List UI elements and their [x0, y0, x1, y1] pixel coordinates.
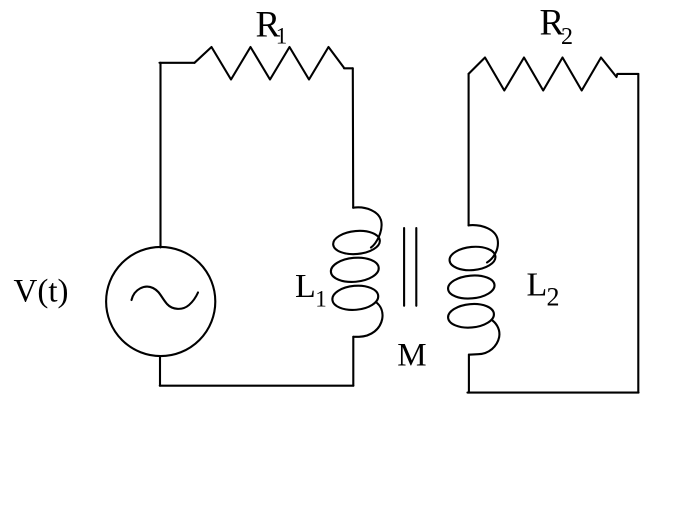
- wire source bottom lead: [159, 356, 161, 386]
- inductor L1: [330, 207, 383, 336]
- wire below L1: [352, 337, 354, 386]
- svg-text:L1: L1: [295, 268, 327, 312]
- wire right vertical of left loop: [352, 68, 355, 207]
- svg-text:L2: L2: [527, 267, 560, 312]
- svg-text:R2: R2: [540, 3, 574, 51]
- wire below L2: [468, 355, 470, 393]
- svg-text:V(t): V(t): [14, 273, 69, 309]
- resistor R1: [195, 47, 353, 80]
- svg-text:M: M: [397, 337, 426, 373]
- transformer core line 2: [415, 228, 417, 306]
- wire bottom of left loop: [160, 385, 353, 387]
- wire left vertical of right loop: [468, 74, 470, 226]
- wire top-left horizontal: [160, 62, 195, 64]
- resistor R2: [469, 58, 639, 91]
- source V1 sine wave: [132, 287, 199, 309]
- transformer core line 1: [403, 228, 405, 306]
- wire left vertical (source top lead): [159, 63, 161, 248]
- wire bottom of right loop: [468, 392, 639, 394]
- source V1 circle: [106, 247, 215, 356]
- svg-text:R1: R1: [256, 5, 288, 49]
- wire right vertical of right loop: [637, 74, 639, 393]
- inductor L2: [447, 225, 499, 355]
